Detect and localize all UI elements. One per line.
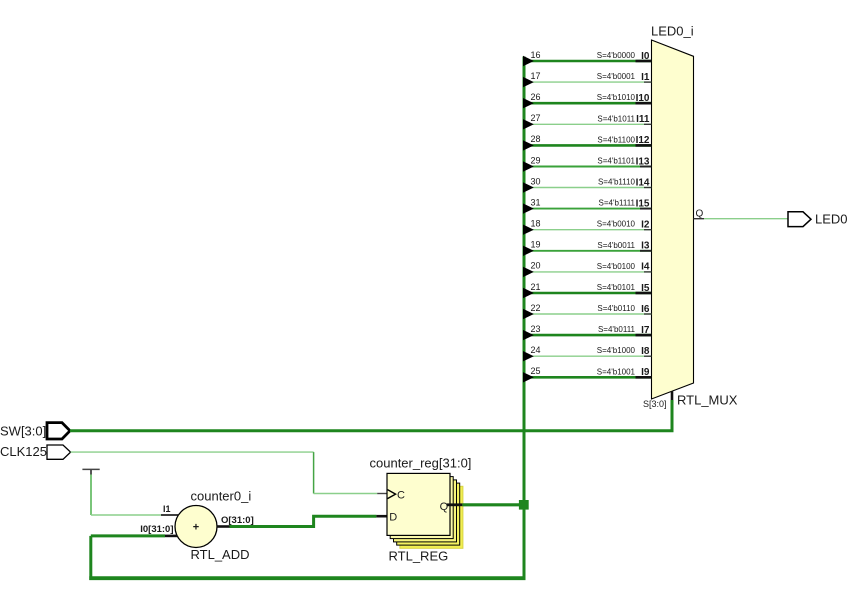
- wire mux input I4 (net 20): [524, 271, 652, 273]
- svg-text:S=4'b1000: S=4'b1000: [597, 346, 636, 355]
- svg-text:I13: I13: [636, 156, 650, 167]
- svg-text:I1: I1: [641, 72, 650, 83]
- wire mux input I8 (net 24): [524, 355, 652, 357]
- svg-text:RTL_ADD: RTL_ADD: [191, 547, 250, 562]
- pin stub C: [377, 493, 387, 495]
- wire mux input I14 (net 30): [524, 187, 652, 189]
- svg-text:I11: I11: [636, 114, 650, 125]
- arrowhead on bus for I13: [523, 161, 534, 171]
- svg-text:31: 31: [531, 197, 541, 207]
- svg-text:RTL_MUX: RTL_MUX: [677, 393, 738, 408]
- wire mux input I9 (net 25): [524, 376, 652, 379]
- svg-text:17: 17: [531, 71, 541, 81]
- wire Q to LED0 port: [704, 218, 788, 220]
- svg-text:25: 25: [531, 366, 541, 376]
- wire mux input I7 (net 23): [524, 334, 652, 337]
- svg-text:RTL_REG: RTL_REG: [389, 549, 449, 564]
- svg-text:30: 30: [531, 176, 541, 186]
- svg-text:D: D: [389, 511, 397, 523]
- svg-text:S=4'b0100: S=4'b0100: [597, 262, 636, 271]
- svg-text:C: C: [397, 490, 405, 502]
- pin stub S[3:0] at mux bottom: [671, 391, 674, 401]
- svg-text:S=4'b1100: S=4'b1100: [597, 135, 635, 144]
- svg-text:S=4'b1001: S=4'b1001: [597, 367, 636, 376]
- arrowhead on bus for I2: [523, 225, 534, 235]
- svg-text:CLK125: CLK125: [0, 444, 47, 459]
- svg-text:28: 28: [531, 134, 541, 144]
- svg-text:S=4'b0111: S=4'b0111: [598, 325, 636, 334]
- svg-text:20: 20: [531, 261, 541, 271]
- wire CLK125 vertical: [313, 452, 315, 493]
- adder U2 counter0_i RTL_ADD body: [175, 506, 217, 548]
- svg-text:S=4'b0001: S=4'b0001: [597, 72, 636, 81]
- arrowhead on bus for I7: [523, 330, 534, 340]
- arrowhead on bus for I15: [523, 203, 534, 213]
- svg-text:Q: Q: [696, 209, 704, 220]
- wire feedback bottom horizontal: [89, 576, 525, 580]
- svg-text:I6: I6: [641, 304, 650, 315]
- svg-text:I0: I0: [641, 51, 650, 62]
- wire mux input I12 (net 28): [524, 144, 652, 147]
- svg-text:S=4'b0010: S=4'b0010: [597, 220, 636, 229]
- wire mux input I1 (net 17): [524, 81, 652, 83]
- svg-text:23: 23: [531, 324, 541, 334]
- arrowhead on bus for I11: [523, 119, 534, 129]
- svg-text:16: 16: [531, 50, 541, 60]
- svg-text:I0[31:0]: I0[31:0]: [140, 524, 173, 535]
- wire mux input I13 (net 29): [524, 166, 652, 168]
- arrowhead on bus for I12: [523, 140, 534, 150]
- svg-text:S=4'b1111: S=4'b1111: [599, 199, 636, 208]
- wire CLK125 horizontal: [71, 451, 314, 453]
- wire mux input I0 (net 16): [524, 60, 652, 63]
- pin stub Q of register: [447, 503, 463, 506]
- svg-text:SW[3:0]: SW[3:0]: [0, 424, 46, 439]
- clock wedge: [388, 490, 396, 499]
- svg-text:I12: I12: [636, 135, 650, 146]
- svg-text:26: 26: [531, 92, 541, 102]
- pin stub I1: [161, 514, 178, 516]
- svg-text:+: +: [193, 521, 199, 533]
- constant driver (T symbol) for adder I1: [82, 468, 99, 470]
- svg-text:I7: I7: [641, 325, 650, 336]
- junction at Q net: [519, 500, 529, 510]
- arrowhead on bus for I6: [523, 309, 534, 319]
- wire CLK125 to C pin: [314, 493, 378, 495]
- wire adder O to register D: [230, 516, 377, 526]
- wire mux input I3 (net 19): [524, 250, 652, 252]
- arrowhead on bus for I4: [523, 267, 534, 277]
- svg-text:S=4'b0110: S=4'b0110: [597, 304, 635, 313]
- arrowhead on bus for I5: [523, 288, 534, 298]
- arrowhead on bus for I3: [523, 246, 534, 256]
- svg-text:I8: I8: [641, 346, 650, 357]
- svg-text:S=4'b1110: S=4'b1110: [598, 178, 636, 187]
- wire mux input I15 (net 31): [524, 208, 652, 210]
- svg-text:29: 29: [531, 155, 541, 165]
- arrowhead on bus for I9: [523, 372, 534, 382]
- wire vertical bus from mux inputs down to Q junction and feedback: [523, 57, 526, 579]
- svg-text:18: 18: [531, 219, 541, 229]
- svg-text:S=4'b1010: S=4'b1010: [597, 93, 636, 102]
- svg-text:I4: I4: [641, 262, 650, 273]
- svg-text:I10: I10: [636, 93, 650, 104]
- svg-text:O[31:0]: O[31:0]: [221, 515, 254, 526]
- svg-text:I5: I5: [641, 283, 650, 294]
- wire mux input I2 (net 18): [524, 229, 652, 231]
- svg-text:I3: I3: [641, 241, 650, 252]
- svg-text:19: 19: [531, 240, 541, 250]
- svg-text:S=4'b1101: S=4'b1101: [597, 157, 635, 166]
- svg-text:LED0: LED0: [815, 212, 848, 227]
- mux U1 LED0_i RTL_MUX body: [652, 40, 694, 399]
- svg-text:S[3:0]: S[3:0]: [643, 399, 667, 409]
- input port CLK125: [47, 445, 71, 459]
- svg-text:I15: I15: [636, 198, 650, 209]
- svg-text:21: 21: [531, 282, 541, 292]
- arrowhead on bus for I1: [523, 77, 534, 87]
- wire feedback into I0: [91, 534, 165, 537]
- wire SW[3:0] to mux select: [70, 400, 672, 431]
- pin stub Q of mux: [694, 218, 705, 220]
- svg-text:S=4'b0101: S=4'b0101: [597, 283, 636, 292]
- svg-text:counter_reg[31:0]: counter_reg[31:0]: [370, 456, 472, 471]
- arrowhead on bus for I0: [523, 56, 534, 66]
- arrowhead on bus for I10: [523, 98, 534, 108]
- svg-text:counter0_i: counter0_i: [191, 489, 252, 504]
- arrowhead on bus for I8: [523, 351, 534, 361]
- wire register Q to junction: [462, 503, 524, 506]
- wire mux input I6 (net 22): [524, 313, 652, 315]
- svg-text:22: 22: [531, 303, 541, 313]
- pin stub I0: [165, 535, 178, 538]
- pin stub D: [376, 515, 387, 518]
- svg-text:Q: Q: [440, 501, 449, 513]
- svg-text:S=4'b1011: S=4'b1011: [597, 114, 635, 123]
- svg-text:I9: I9: [641, 367, 650, 378]
- svg-text:S=4'b0011: S=4'b0011: [597, 241, 635, 250]
- svg-text:I2: I2: [641, 220, 650, 231]
- svg-text:I14: I14: [636, 177, 650, 188]
- wire mux input I11 (net 27): [524, 123, 652, 125]
- svg-text:27: 27: [531, 113, 541, 123]
- register U3 counter_reg[31:0] RTL_REG stacked sheets: [400, 486, 463, 548]
- svg-text:24: 24: [531, 345, 541, 355]
- output port LED0: [788, 212, 811, 227]
- svg-text:LED0_i: LED0_i: [651, 24, 694, 39]
- wire constant to I1 horizontal: [91, 514, 161, 516]
- pin stub O: [217, 525, 230, 528]
- input port SW[3:0]: [47, 423, 70, 439]
- svg-text:I1: I1: [163, 504, 171, 514]
- wire feedback left vertical: [89, 536, 92, 580]
- wire constant to I1 vertical: [90, 475, 92, 516]
- arrowhead on bus for I14: [523, 182, 534, 192]
- wire mux input I10 (net 26): [524, 102, 652, 105]
- svg-text:S=4'b0000: S=4'b0000: [597, 51, 636, 60]
- wire mux input I5 (net 21): [524, 292, 652, 295]
